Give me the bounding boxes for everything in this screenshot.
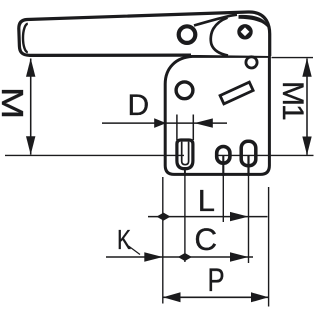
base line left <box>5 154 184 156</box>
dimension D line <box>102 122 227 124</box>
dimension D arrow right <box>194 118 213 127</box>
middle slot stub <box>222 155 224 176</box>
dimension M1 arrow up <box>302 58 311 76</box>
arm corner wedge <box>239 15 270 30</box>
extension line middle slot center <box>222 165 224 223</box>
clamp body plate <box>165 56 269 174</box>
dimension L diamond <box>157 213 171 221</box>
extension line right slot center <box>248 165 250 263</box>
dimension L line <box>148 216 268 218</box>
label M1 <box>277 81 307 117</box>
angled slot <box>220 82 253 104</box>
right slot stub <box>247 155 249 176</box>
handle end cap inner ellipse <box>23 24 28 52</box>
extension line body right <box>268 187 270 307</box>
arm waist s-curve <box>211 18 228 56</box>
right slot <box>241 141 256 165</box>
extension M1 top <box>272 57 314 59</box>
extension line body left <box>162 177 164 304</box>
dimension M line <box>30 59 32 155</box>
dimension L arrow <box>230 212 249 221</box>
dimension M arrow down <box>26 136 35 155</box>
base line right <box>215 154 314 156</box>
dimension D arrow left <box>154 118 166 128</box>
dimension M1 line <box>306 59 308 155</box>
dimension K/C line <box>106 256 253 258</box>
dimension C arrow <box>230 252 249 261</box>
extension D left <box>176 115 178 141</box>
dimension C diamond <box>178 253 192 261</box>
handle bar fill <box>19 12 270 56</box>
handle outline <box>19 12 270 56</box>
body pivot hole <box>176 82 193 99</box>
body small hole <box>246 57 257 68</box>
dimension P arrow left <box>163 292 181 302</box>
extension D right <box>192 115 194 141</box>
arm square hole <box>237 24 252 39</box>
middle slot <box>217 147 230 164</box>
dimension M1 arrow down <box>302 137 311 156</box>
dimension K arrow <box>144 252 163 261</box>
dimension M arrow up <box>26 58 35 76</box>
arm upper-left edge <box>194 15 237 26</box>
label C <box>188 224 224 255</box>
dimension P line <box>163 296 269 298</box>
label M <box>0 81 27 126</box>
extension line left slot center <box>184 167 186 176</box>
label L <box>188 185 224 216</box>
label K <box>110 226 137 254</box>
pivot rivet ring <box>179 26 196 43</box>
label D <box>120 90 156 121</box>
dimension P arrow right <box>251 292 269 302</box>
label P <box>201 264 230 296</box>
left mounting slot outer <box>177 140 193 169</box>
K leader <box>129 246 141 255</box>
left mounting slot inner <box>182 142 189 165</box>
